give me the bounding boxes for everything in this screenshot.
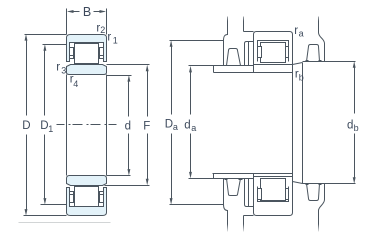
svg-text:F: F <box>143 120 150 132</box>
svg-text:r: r <box>107 32 111 44</box>
svg-text:d: d <box>184 120 190 132</box>
svg-text:3: 3 <box>61 65 66 75</box>
svg-text:b: b <box>299 72 304 82</box>
svg-text:b: b <box>354 123 359 133</box>
svg-text:B: B <box>83 5 91 19</box>
svg-text:d: d <box>125 120 131 132</box>
svg-text:D: D <box>22 120 30 132</box>
svg-text:D: D <box>165 118 173 130</box>
svg-text:r: r <box>56 61 60 73</box>
svg-text:2: 2 <box>100 25 105 35</box>
svg-text:d: d <box>347 119 353 131</box>
svg-text:a: a <box>173 122 178 132</box>
svg-text:1: 1 <box>113 36 118 46</box>
svg-text:a: a <box>299 29 304 39</box>
svg-text:a: a <box>191 123 196 133</box>
svg-text:D: D <box>40 120 48 132</box>
svg-text:4: 4 <box>73 79 78 89</box>
svg-text:1: 1 <box>48 124 53 134</box>
